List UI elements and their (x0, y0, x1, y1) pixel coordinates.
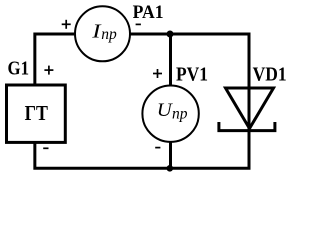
diode VD1 (tunnel diode) anode triangle (226, 88, 274, 129)
svg-text:ГТ: ГТ (25, 101, 49, 125)
svg-text:пр: пр (101, 26, 117, 43)
wire: top rail from PA1 right through node A, right branch down, bottom rail back to G1 minus terminal (35, 34, 249, 168)
svg-text:VD1: VD1 (253, 65, 287, 86)
node A (top junction dot) (167, 31, 174, 38)
ammeter label Iпр (91, 21, 117, 44)
minus mark at PV1 bottom terminal (155, 147, 160, 149)
wire: G1 plus terminal up and top rail left segment to PA1 (35, 34, 74, 85)
plus mark at PA1 left terminal (62, 20, 71, 29)
svg-text:пр: пр (172, 106, 188, 123)
generator G1 box (7, 85, 66, 142)
wire: node A down to PV1 top (169, 34, 172, 86)
minus mark at PA1 right terminal (136, 23, 141, 25)
svg-text:G1: G1 (8, 58, 30, 80)
svg-text:U: U (157, 100, 173, 121)
wire: PV1 bottom down to node B (169, 142, 172, 169)
voltmeter PV1 circle (142, 86, 198, 142)
svg-text:PV1: PV1 (176, 63, 208, 85)
diode VD1 cathode bar with upturned ends (219, 122, 275, 131)
plus mark at PV1 top terminal (153, 69, 162, 78)
minus mark at G1 bottom terminal (43, 147, 48, 149)
plus mark at G1 top terminal (44, 66, 53, 75)
node B (bottom junction dot) (167, 165, 174, 172)
ammeter PA1 circle (75, 6, 130, 61)
svg-text:PA1: PA1 (133, 2, 164, 23)
voltmeter label Uпр (157, 100, 188, 123)
